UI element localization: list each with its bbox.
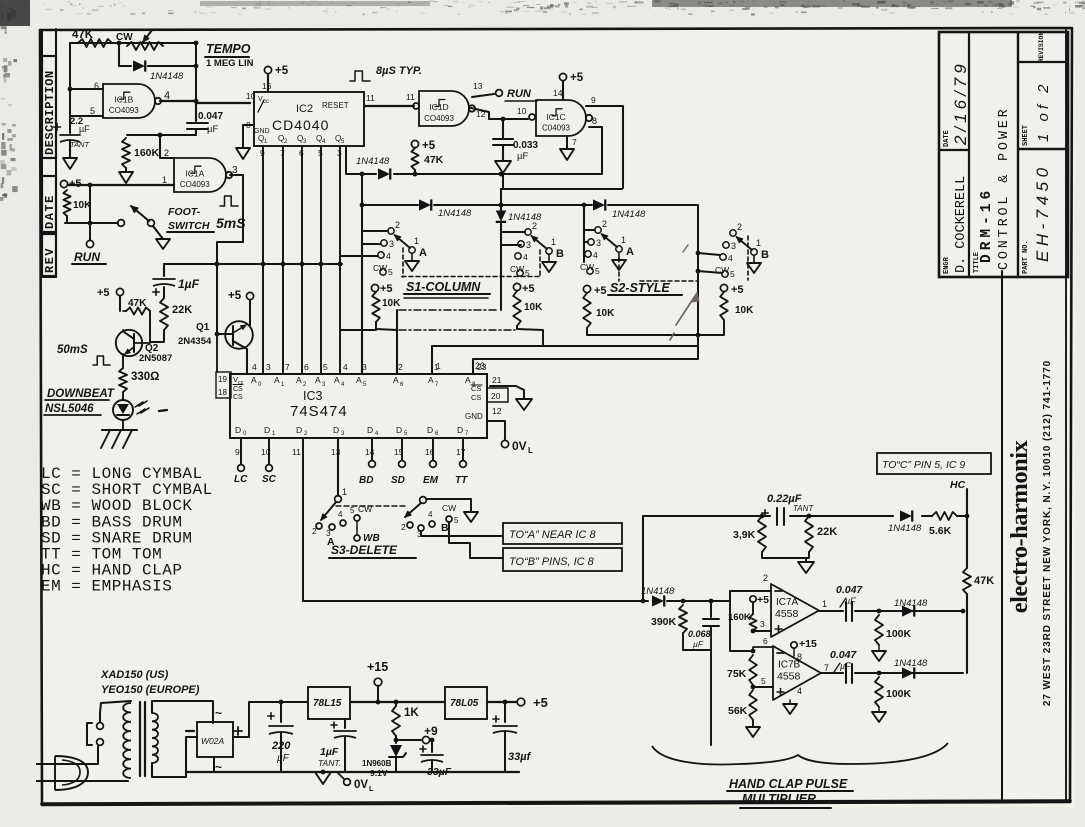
svg-text:D. COCKERELL: D. COCKERELL: [954, 176, 969, 273]
svg-text:390K: 390K: [651, 616, 677, 628]
svg-text:A: A: [334, 375, 340, 385]
wire D2 long to hand clap: [303, 438, 648, 601]
svg-text:12: 12: [492, 406, 502, 416]
foot switch: [118, 220, 125, 227]
switch S2 wiper B: [730, 230, 736, 236]
gate IC1B CD4093: [103, 84, 155, 118]
svg-text:160K: 160K: [134, 147, 160, 159]
wire bridge bottom to bus: [213, 757, 215, 772]
terminal RUN bottom-left: [89, 185, 91, 240]
junction box TO A NEAR IC8: [503, 523, 622, 544]
svg-text:100K: 100K: [886, 628, 912, 640]
ground IC1C pin7: [566, 136, 568, 149]
terminal +15 IC7B: [791, 642, 797, 648]
svg-text:µF: µF: [845, 596, 856, 606]
svg-text:D: D: [264, 425, 270, 435]
svg-text:50mS: 50mS: [57, 344, 88, 356]
svg-text:A: A: [274, 375, 280, 385]
svg-text:NSL5046: NSL5046: [45, 403, 94, 415]
diode 1N4148 to HC: [900, 510, 912, 521]
wire S2B contact stubs: [698, 253, 720, 255]
wire IC7B output row: [821, 672, 843, 674]
svg-text:2: 2: [532, 221, 537, 231]
resistor 10K S1B: [513, 283, 520, 290]
svg-text:5: 5: [90, 106, 95, 116]
svg-text:CD4040: CD4040: [272, 117, 329, 133]
svg-text:0.033: 0.033: [513, 140, 538, 151]
svg-text:4: 4: [252, 362, 257, 372]
svg-text:5: 5: [730, 269, 735, 279]
svg-text:5: 5: [525, 268, 530, 278]
wire S1A contact4 row: [340, 255, 378, 257]
capacitor 220uF: [280, 702, 282, 722]
svg-text:IC3: IC3: [303, 389, 323, 403]
svg-text:74S474: 74S474: [290, 403, 348, 420]
LED arrows: [135, 401, 147, 407]
wire HC vertical: [966, 489, 968, 516]
wire bridge minus to ground bus: [186, 737, 197, 772]
diode 1N4148 middle vertical: [500, 189, 502, 210]
wire S1B 10K to T3: [517, 326, 543, 346]
wire S2A feeder: [583, 205, 585, 262]
svg-text:A: A: [428, 375, 434, 385]
wire D1 to SC: [268, 438, 270, 464]
wire D0 to LC: [240, 438, 242, 464]
svg-text:HAND CLAP PULSE: HAND CLAP PULSE: [729, 777, 848, 791]
svg-text:3: 3: [389, 239, 394, 249]
svg-text:0.047: 0.047: [836, 584, 863, 596]
pencil annotation arrow: [676, 293, 697, 325]
svg-text:1µF: 1µF: [320, 746, 339, 758]
switch S3 wiper A: [335, 496, 342, 503]
svg-text:47K: 47K: [974, 575, 994, 587]
svg-text:13: 13: [331, 447, 341, 457]
svg-text:+5: +5: [69, 178, 82, 190]
svg-text:IC7A: IC7A: [776, 597, 799, 608]
capacitor 0.047uF: [195, 103, 197, 121]
svg-text:TANT: TANT: [70, 140, 90, 149]
wire tempo feedback top: [70, 42, 196, 44]
capacitor 0.047 upper: [845, 602, 847, 621]
svg-text:20: 20: [491, 391, 501, 401]
svg-text:0.068: 0.068: [688, 629, 711, 639]
svg-text:D: D: [396, 425, 402, 435]
svg-text:7: 7: [285, 362, 290, 372]
resistor 160K: [122, 138, 130, 168]
gate IC1C CD4093: [529, 114, 535, 120]
regulator 78L15: [308, 687, 350, 719]
svg-text:+5: +5: [533, 695, 548, 710]
svg-text:MULTIPLIER: MULTIPLIER: [742, 792, 816, 806]
capacitor 2.2uF tant: [54, 126, 61, 128]
svg-text:10K: 10K: [596, 308, 615, 319]
svg-text:10K: 10K: [735, 305, 754, 316]
svg-text:4: 4: [428, 510, 433, 519]
svg-text:D: D: [333, 425, 339, 435]
svg-text:RUN: RUN: [74, 250, 100, 264]
svg-text:4558: 4558: [775, 608, 799, 620]
ground IC3 CS: [516, 399, 532, 410]
capacitor 33uF output: [504, 702, 506, 722]
svg-text:1 of 2: 1 of 2: [1035, 80, 1052, 142]
ground 100K upper: [872, 651, 886, 661]
wire S3 contact3 to box A: [421, 531, 503, 536]
brace hand clap: [652, 743, 948, 764]
terminal +5 IC7A: [750, 596, 756, 602]
contact WB S3: [356, 521, 358, 534]
terminal 0VL: [501, 440, 508, 447]
junction box TO B PINS IC8: [503, 548, 622, 571]
wire 0.047 bottom node: [127, 134, 196, 136]
resistor 5.6K: [932, 512, 957, 520]
wire IC1D pin12 to IC1C: [471, 108, 528, 119]
wire T3 row A7: [432, 346, 698, 374]
svg-text:3: 3: [266, 362, 271, 372]
terminal +5 IC2: [264, 66, 271, 73]
svg-text:1: 1: [434, 362, 439, 372]
svg-text:S3-DELETE: S3-DELETE: [331, 543, 398, 557]
svg-text:1: 1: [342, 487, 347, 497]
wire S1B feeder: [500, 224, 502, 310]
wire D7 to TT: [462, 438, 464, 460]
svg-text:+5: +5: [380, 283, 393, 295]
svg-text:10K: 10K: [524, 302, 543, 313]
LED NSL5046: [122, 392, 124, 400]
svg-text:3: 3: [731, 241, 736, 251]
resistor 160K: [750, 614, 757, 631]
wire IC1B output to IC2 pin10: [160, 100, 196, 102]
wire IC2 reset pin11: [364, 105, 414, 107]
cell REV: [42, 234, 56, 276]
resistor 22K: [163, 287, 165, 298]
svg-text:SWITCH: SWITCH: [168, 220, 210, 232]
svg-text:EM: EM: [423, 475, 439, 486]
ground 0.033: [495, 161, 511, 173]
svg-text:4: 4: [343, 362, 348, 372]
svg-text:22K: 22K: [172, 304, 192, 316]
wire A5 riser: [361, 245, 363, 374]
svg-text:6: 6: [763, 636, 768, 646]
capacitor 0.068uF: [710, 601, 712, 617]
revision strip column: [41, 30, 43, 277]
svg-text:W02A: W02A: [201, 736, 224, 746]
svg-text:1µF: 1µF: [178, 277, 200, 291]
svg-text:+5: +5: [228, 290, 242, 302]
svg-text:47K: 47K: [424, 154, 444, 166]
svg-text:1: 1: [621, 235, 626, 245]
svg-text:IC1C: IC1C: [546, 112, 565, 122]
svg-text:27 WEST 23RD STREET NEW YORK,: 27 WEST 23RD STREET NEW YORK, N.Y. 10010…: [1042, 360, 1053, 706]
ground 3.9K 22K: [762, 552, 809, 558]
svg-text:HC: HC: [950, 479, 966, 491]
svg-text:A: A: [393, 375, 399, 385]
svg-text:+15: +15: [367, 660, 388, 674]
capacitor 0.22uF tant: [762, 512, 768, 514]
svg-text:D: D: [296, 425, 302, 435]
diode 1N4148 tempo: [119, 43, 131, 66]
ground tempo cap: [63, 158, 77, 169]
svg-text:1N4148: 1N4148: [894, 658, 928, 669]
wire IC1C pin9 loop: [586, 106, 623, 188]
counter IC2 CD4040: [254, 92, 364, 146]
resistor 330ohm: [122, 354, 124, 368]
svg-text:DATE: DATE: [943, 130, 951, 147]
svg-text:PART NO.: PART NO.: [1022, 240, 1030, 274]
transistor Q2 2N5087: [116, 330, 142, 356]
svg-text:9: 9: [235, 447, 240, 457]
svg-text:8µS TYP.: 8µS TYP.: [376, 65, 422, 77]
wire 390K 0.068 ground run: [683, 650, 711, 745]
svg-text:5: 5: [454, 516, 459, 525]
svg-text:IC1D: IC1D: [429, 102, 448, 112]
svg-text:+5: +5: [522, 283, 535, 295]
svg-text:2: 2: [398, 362, 403, 372]
svg-text:SD: SD: [391, 475, 405, 486]
wire IC3 pin12 to 0VL: [487, 421, 505, 440]
svg-text:A: A: [356, 375, 362, 385]
svg-text:GND: GND: [465, 412, 483, 421]
regulator 78L05: [445, 687, 487, 719]
switch S3 wiper B: [420, 497, 427, 504]
chassis ground LED: [122, 420, 124, 430]
svg-text:~: ~: [215, 706, 222, 720]
svg-text:11: 11: [406, 92, 415, 102]
op-amp IC7A 4558: [771, 584, 819, 637]
svg-text:RUN: RUN: [507, 88, 532, 100]
transformer secondary: [152, 713, 158, 763]
svg-text:4: 4: [728, 253, 733, 263]
switch S1 wiper A: [388, 228, 394, 234]
dashed selector line S1: [402, 248, 404, 277]
resistor 75K: [749, 655, 757, 685]
svg-text:9: 9: [591, 95, 596, 105]
svg-text:1K: 1K: [404, 707, 419, 719]
svg-text:100K: 100K: [886, 688, 912, 700]
svg-text:Q1: Q1: [196, 322, 210, 333]
svg-text:A: A: [315, 375, 321, 385]
cell DESCRIPTION: [42, 56, 56, 158]
svg-text:TO“B” PINS, IC 8: TO“B” PINS, IC 8: [509, 556, 595, 568]
wire 0.22 top row: [643, 515, 770, 517]
svg-text:1: 1: [162, 175, 167, 185]
diode 1N4148 on W1: [378, 168, 390, 179]
switch S2 wiper A: [595, 227, 601, 233]
resistor 22K handclap: [805, 516, 813, 552]
capacitor 1uF tant power: [344, 719, 346, 728]
svg-text:19: 19: [218, 375, 227, 384]
svg-text:3: 3: [526, 240, 531, 250]
svg-text:DRM-16: DRM-16: [979, 187, 995, 263]
svg-text:1N4148: 1N4148: [150, 71, 184, 82]
wire T4 row A8: [473, 359, 697, 374]
wire bus emphasis row: [164, 263, 342, 265]
svg-text:78L05: 78L05: [450, 698, 479, 709]
svg-text:11: 11: [292, 447, 301, 457]
svg-text:4: 4: [338, 510, 343, 519]
wire IC1A pin1 rail: [68, 184, 174, 186]
svg-text:A: A: [296, 375, 302, 385]
svg-text:4558: 4558: [777, 671, 801, 683]
wire bridge plus to rail: [233, 702, 308, 737]
svg-text:1: 1: [756, 238, 761, 248]
svg-text:+5: +5: [594, 285, 607, 297]
svg-text:1: 1: [414, 236, 419, 246]
svg-text:D: D: [235, 425, 241, 435]
svg-text:2/16/79: 2/16/79: [951, 60, 970, 146]
wire S2B 10K to T2: [698, 320, 724, 335]
ground symbol power: [315, 772, 331, 784]
resistor 10K S1A: [371, 284, 378, 291]
svg-text:CO4093: CO4093: [180, 180, 210, 189]
wire A6 riser: [396, 310, 398, 374]
diode 1N4148 left on W3: [419, 199, 431, 210]
wire footswitch node: [65, 222, 118, 224]
svg-text:10K: 10K: [382, 298, 401, 309]
svg-text:TO“A” NEAR IC 8: TO“A” NEAR IC 8: [509, 529, 596, 541]
gate IC1D CD4093: [413, 103, 419, 109]
svg-text:DATE: DATE: [43, 194, 57, 229]
diode 1N4148 input: [652, 595, 664, 606]
svg-text:160K: 160K: [728, 612, 751, 623]
wire D4 to BD: [371, 438, 373, 460]
svg-text:µF: µF: [277, 753, 290, 764]
wire IC7B pin5: [753, 686, 773, 688]
terminal +5 power: [517, 698, 525, 706]
svg-text:2: 2: [737, 222, 742, 232]
svg-text:2: 2: [401, 522, 406, 532]
resistor 47K pullup W1: [411, 140, 418, 147]
svg-text:CONTROL & POWER: CONTROL & POWER: [997, 106, 1012, 270]
svg-text:B: B: [761, 249, 769, 261]
ground 160K: [119, 172, 133, 183]
svg-text:DOWNBEAT: DOWNBEAT: [47, 388, 115, 400]
bridge rectifier W02A: [197, 722, 233, 757]
wire pin6 row: [753, 647, 773, 651]
svg-text:D: D: [427, 425, 433, 435]
wire IC1A output to Q column: [217, 175, 243, 334]
wire to IC1A pin2: [160, 135, 174, 158]
switch S1 wiper B: [525, 229, 531, 235]
svg-text:µF: µF: [79, 124, 90, 134]
svg-text:+5: +5: [422, 140, 436, 152]
wire S1A feeder: [361, 205, 363, 245]
wire IC1C output to bus W1: [589, 127, 602, 174]
wire D6 to EM: [432, 438, 434, 460]
svg-text:5mS: 5mS: [216, 215, 246, 231]
svg-text:7: 7: [824, 663, 829, 673]
svg-text:14: 14: [365, 447, 375, 457]
svg-text:1N4148: 1N4148: [641, 586, 675, 597]
dashed line S3: [336, 505, 406, 507]
svg-text:electro-harmonix: electro-harmonix: [1006, 439, 1033, 613]
svg-text:23: 23: [477, 362, 487, 372]
svg-text:CS: CS: [233, 394, 243, 401]
diode 1N4148 lower output: [902, 667, 914, 678]
svg-text:6: 6: [304, 362, 309, 372]
wire D5 to SD: [401, 438, 403, 460]
svg-text:5: 5: [350, 506, 355, 515]
svg-text:LC: LC: [234, 474, 248, 485]
svg-text:µF: µF: [840, 661, 851, 671]
wire IC7A pin3: [753, 630, 771, 632]
svg-text:+5: +5: [731, 284, 744, 296]
dash-dot S1 row upper: [399, 309, 499, 311]
resistor 47K handclap: [966, 516, 968, 568]
svg-text:0V: 0V: [354, 779, 368, 791]
svg-text:XAD150 (US): XAD150 (US): [100, 669, 169, 681]
svg-text:B: B: [441, 522, 449, 534]
svg-text:IC2: IC2: [296, 103, 313, 115]
svg-text:REVISION: REVISION: [1038, 32, 1045, 62]
title block frame: [939, 32, 1068, 277]
svg-text:TANT.: TANT.: [318, 758, 341, 768]
svg-text:8: 8: [797, 652, 802, 662]
svg-text:L: L: [369, 784, 374, 793]
wire feedback box IC7A: [730, 601, 753, 651]
svg-text:+15: +15: [799, 638, 817, 650]
label 8uS TYP: [350, 71, 370, 81]
svg-text:4: 4: [593, 250, 598, 260]
diode 1N4148 right on W3: [593, 199, 605, 210]
transformer primary: [123, 703, 131, 778]
svg-text:YEO150 (EUROPE): YEO150 (EUROPE): [101, 684, 200, 696]
wire pin4 node vertical: [195, 43, 197, 103]
resistor 10K run pullup: [63, 190, 70, 216]
svg-text:33µf: 33µf: [508, 751, 532, 763]
resistor 47K downbeat: [126, 307, 150, 314]
wire Q2 base: [134, 342, 150, 344]
svg-text:14: 14: [553, 88, 563, 98]
ground 56K: [746, 727, 760, 737]
terminal +5 pullup IC1A: [60, 180, 67, 187]
svg-text:2N4354: 2N4354: [178, 336, 212, 347]
transistor Q1 2N4354: [225, 321, 253, 349]
svg-text:5: 5: [595, 266, 600, 276]
svg-text:11: 11: [366, 93, 375, 103]
wire bus W3: [362, 174, 418, 205]
svg-text:1N4148: 1N4148: [894, 598, 928, 609]
svg-text:S2-STYLE: S2-STYLE: [610, 281, 670, 295]
svg-text:3: 3: [760, 619, 765, 629]
svg-text:DESCRIPTION: DESCRIPTION: [43, 70, 57, 155]
svg-text:D: D: [457, 425, 463, 435]
svg-text:0.047: 0.047: [198, 111, 223, 122]
svg-text:47K: 47K: [128, 298, 147, 309]
wire secondary to bridge: [152, 701, 213, 723]
wire D3 to S3: [337, 438, 339, 496]
capacitor 1uF: [163, 264, 165, 276]
svg-text:B: B: [556, 248, 564, 260]
svg-text:4: 4: [523, 252, 528, 262]
svg-text:1: 1: [822, 599, 827, 609]
svg-text:4: 4: [797, 686, 802, 696]
capacitor 0.033uF: [502, 119, 504, 138]
svg-text:2: 2: [395, 220, 400, 230]
svg-text:CW: CW: [442, 503, 456, 513]
svg-text:D: D: [367, 425, 373, 435]
svg-text:+5: +5: [570, 72, 584, 84]
dashed selector line S2: [618, 258, 620, 281]
svg-text:2: 2: [763, 573, 768, 583]
terminal 0VL power: [337, 772, 344, 779]
svg-text:78L15: 78L15: [313, 698, 342, 709]
terminal RUN top: [472, 94, 494, 97]
resistor 47K tempo: [78, 39, 112, 47]
svg-text:1N4148: 1N4148: [612, 209, 646, 220]
svg-text:10: 10: [517, 106, 527, 116]
IC3 left pins 19 18: [216, 372, 231, 398]
svg-text:56K: 56K: [728, 705, 748, 717]
